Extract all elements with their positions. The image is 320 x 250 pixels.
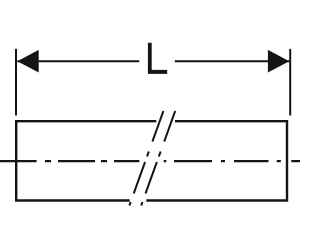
extension line left	[15, 49, 17, 116]
center line (dash-dot axis)	[0, 160, 300, 162]
break mark slash 2	[141, 111, 175, 206]
arrowhead right	[268, 50, 289, 73]
label L	[148, 43, 167, 74]
extension line right	[289, 49, 291, 116]
dimension line left segment	[17, 60, 139, 62]
rod outline right part (top edge after break, right edge, bottom edge)	[146, 121, 287, 200]
arrowhead left	[17, 50, 38, 73]
rod outline left part (top edge, left edge, bottom edge up to break)	[16, 121, 156, 200]
break mark slash 1	[129, 111, 163, 206]
dimension line right segment	[175, 60, 289, 62]
